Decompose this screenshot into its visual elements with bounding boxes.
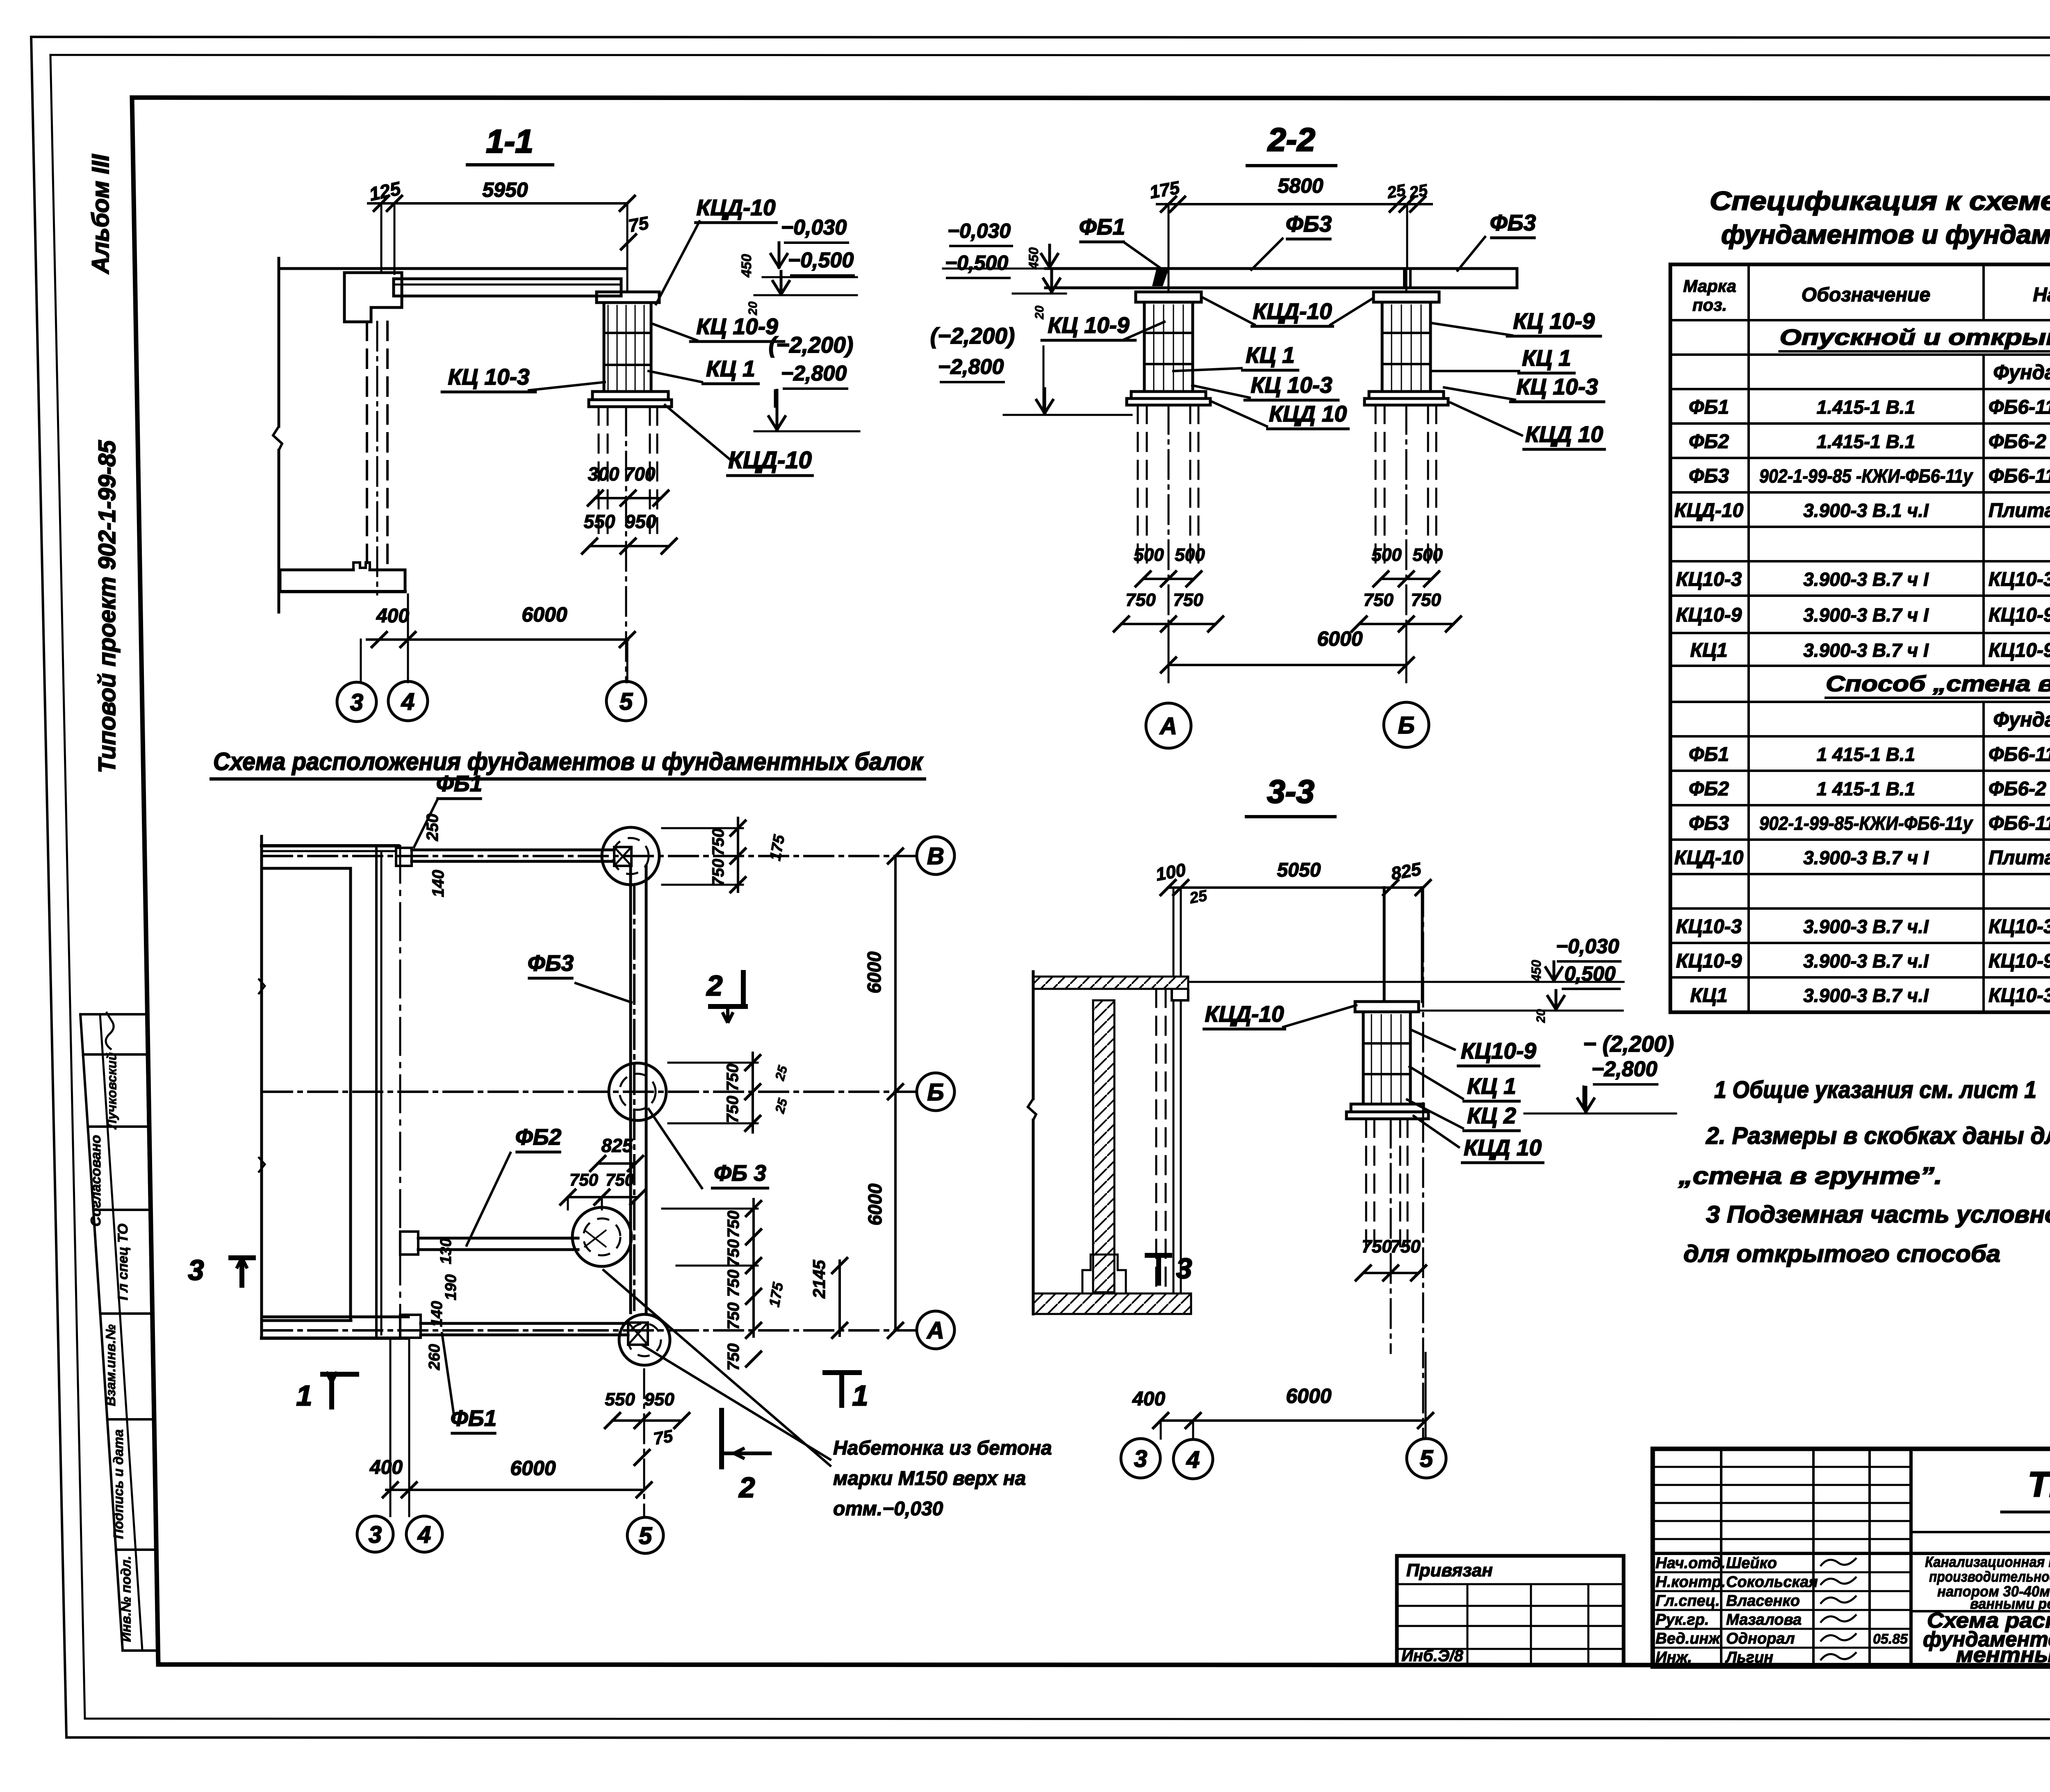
svg-text:1.415-1 В.1: 1.415-1 В.1: [1817, 431, 1915, 452]
svg-text:В: В: [927, 843, 944, 870]
svg-text:1.415-1 В.1: 1.415-1 В.1: [1817, 396, 1915, 418]
svg-text:КЦ 1: КЦ 1: [1246, 342, 1295, 368]
svg-text:500: 500: [1175, 545, 1205, 565]
svg-text:Плита днища КЦД10: Плита днища КЦД10: [1988, 500, 2050, 521]
svg-text:КЦД-10: КЦД-10: [1205, 1001, 1284, 1027]
svg-text:КЦ1: КЦ1: [1690, 640, 1727, 661]
svg-text:3.900-3 В.7 ч.I: 3.900-3 В.7 ч.I: [1803, 950, 1929, 972]
svg-text:750: 750: [1362, 1236, 1392, 1257]
svg-text:Фундаментные балки: Фундаментные балки: [1993, 361, 2050, 384]
svg-text:6000: 6000: [510, 1457, 556, 1480]
svg-text:Власенко: Власенко: [1726, 1592, 1800, 1610]
svg-text:5950: 5950: [482, 178, 528, 201]
svg-text:ФБ6-11: ФБ6-11: [1988, 744, 2050, 765]
svg-text:2145: 2145: [809, 1260, 829, 1299]
svg-text:ФБ3: ФБ3: [1689, 813, 1729, 834]
svg-text:А: А: [1159, 713, 1177, 740]
svg-text:1 415-1 В.1: 1 415-1 В.1: [1817, 744, 1915, 765]
svg-text:−0,030: −0,030: [1556, 935, 1619, 958]
svg-text:ФБ3: ФБ3: [1286, 211, 1332, 237]
svg-text:КЦ10-3: КЦ10-3: [1988, 569, 2050, 590]
svg-text:3: 3: [188, 1254, 204, 1286]
svg-text:Нач.отд.: Нач.отд.: [1656, 1555, 1725, 1572]
svg-text:поз.: поз.: [1692, 295, 1727, 314]
svg-text:750: 750: [709, 829, 727, 856]
svg-text:6000: 6000: [1317, 627, 1362, 650]
svg-text:Вед.инж: Вед.инж: [1656, 1630, 1721, 1647]
svg-text:Опускной и открытый способ: Опускной и открытый способ: [1780, 325, 2050, 350]
svg-text:450: 450: [739, 254, 754, 278]
svg-text:для открытого способа: для открытого способа: [1683, 1241, 2000, 1267]
svg-text:2. Размеры в скобках даны дл: 2. Размеры в скобках даны для способа: [1706, 1123, 2050, 1149]
svg-text:Н.контр.: Н.контр.: [1656, 1573, 1726, 1591]
svg-text:1 Общие указания см. лист 1: 1 Общие указания см. лист 1: [1714, 1077, 2036, 1103]
svg-text:ФБ1: ФБ1: [1689, 396, 1729, 418]
svg-text:750: 750: [709, 859, 727, 886]
svg-text:Наименование: Наименование: [2033, 284, 2050, 306]
svg-text:750: 750: [724, 1302, 743, 1330]
svg-text:КЦ10-9: КЦ10-9: [1988, 950, 2050, 972]
svg-text:ФБ6-2: ФБ6-2: [1988, 431, 2046, 453]
svg-text:КЦ10-3: КЦ10-3: [1988, 985, 2050, 1006]
svg-text:Фундаментные балки: Фундаментные балки: [1993, 708, 2050, 731]
svg-text:190: 190: [442, 1274, 460, 1300]
svg-text:КЦ10-9: КЦ10-9: [1988, 604, 2050, 626]
svg-text:Согласовано: Согласовано: [88, 1135, 104, 1227]
svg-text:„стена в грунте”.: „стена в грунте”.: [1678, 1163, 1942, 1189]
svg-text:КЦД-10: КЦД-10: [1674, 847, 1744, 869]
svg-text:2: 2: [738, 1471, 755, 1503]
svg-text:Марка: Марка: [1683, 276, 1736, 296]
svg-text:140: 140: [429, 870, 447, 897]
svg-text:5800: 5800: [1278, 174, 1323, 197]
svg-text:ФБ6-11: ФБ6-11: [1988, 396, 2050, 418]
svg-text:3-3: 3-3: [1267, 773, 1314, 810]
svg-text:140: 140: [428, 1301, 446, 1327]
svg-text:750: 750: [724, 1239, 743, 1267]
svg-text:500: 500: [1412, 545, 1443, 565]
svg-text:(−2,200): (−2,200): [930, 323, 1015, 348]
svg-text:500: 500: [1371, 545, 1402, 565]
svg-text:5: 5: [639, 1523, 652, 1549]
svg-text:Сокольская: Сокольская: [1726, 1573, 1818, 1591]
svg-text:3 Подземная часть условно п: 3 Подземная часть условно показана: [1706, 1201, 2050, 1228]
svg-text:Инб.Э/8: Инб.Э/8: [1401, 1647, 1464, 1665]
svg-text:Гл.спец.: Гл.спец.: [1656, 1592, 1720, 1610]
svg-text:−0,500: −0,500: [788, 248, 854, 272]
svg-text:КЦ10-9: КЦ10-9: [1988, 640, 2050, 661]
svg-text:КЦ10-9: КЦ10-9: [1676, 950, 1742, 972]
svg-text:КЦД-10: КЦД-10: [1253, 298, 1332, 324]
svg-text:950: 950: [644, 1389, 674, 1409]
svg-text:Б: Б: [927, 1079, 944, 1106]
svg-text:2-2: 2-2: [1267, 121, 1315, 158]
svg-text:КЦ 10-3: КЦ 10-3: [1250, 372, 1332, 398]
svg-text:КЦ10-3: КЦ10-3: [1988, 916, 2050, 938]
svg-text:3: 3: [350, 689, 363, 716]
svg-text:3.900-3 В.7 ч I: 3.900-3 В.7 ч I: [1803, 847, 1929, 868]
svg-text:05.85: 05.85: [1873, 1631, 1908, 1647]
svg-text:250: 250: [424, 814, 442, 842]
svg-text:75: 75: [627, 213, 650, 236]
svg-text:КЦ 10-9: КЦ 10-9: [1048, 312, 1130, 338]
svg-text:Схема расположения фундаментов: Схема расположения фундаментов и фундаме…: [213, 748, 923, 775]
svg-text:−2,800: −2,800: [938, 355, 1004, 379]
svg-text:750: 750: [1363, 590, 1394, 610]
svg-text:4: 4: [401, 688, 415, 715]
svg-text:950: 950: [625, 511, 656, 532]
svg-text:КЦ 10-3: КЦ 10-3: [1516, 374, 1598, 399]
svg-text:КЦД-10: КЦД-10: [728, 447, 812, 474]
svg-text:Канализационная насосная станц: Канализационная насосная станция: [1925, 1553, 2050, 1570]
svg-text:750: 750: [1411, 590, 1441, 610]
svg-text:ФБ6-2: ФБ6-2: [1988, 778, 2046, 800]
svg-text:Шейко: Шейко: [1726, 1555, 1777, 1572]
svg-text:(−2,200): (−2,200): [769, 332, 853, 357]
svg-text:750: 750: [724, 1343, 743, 1371]
svg-text:Б: Б: [1398, 712, 1414, 739]
svg-text:450: 450: [1026, 247, 1041, 270]
svg-text:Спецификация к схеме располож: Спецификация к схеме расположения: [1710, 186, 2050, 216]
svg-text:750: 750: [1173, 590, 1203, 610]
svg-text:750: 750: [606, 1170, 634, 1189]
svg-text:ФБ1: ФБ1: [1689, 744, 1729, 765]
svg-text:Плита днища КЦД 10: Плита днища КЦД 10: [1988, 847, 2050, 869]
svg-text:КЦ 10-3: КЦ 10-3: [448, 364, 529, 389]
svg-text:КЦД 10: КЦД 10: [1525, 421, 1603, 447]
svg-text:ФБ2: ФБ2: [1689, 431, 1729, 453]
svg-text:ФБ3: ФБ3: [1689, 465, 1729, 487]
svg-text:отм.−0,030: отм.−0,030: [833, 1498, 943, 1520]
svg-text:75: 75: [652, 1426, 674, 1448]
svg-text:марки М150 верх на: марки М150 верх на: [833, 1468, 1026, 1489]
svg-text:ФБ2: ФБ2: [515, 1124, 562, 1150]
svg-text:КЦ 1: КЦ 1: [1522, 345, 1571, 371]
svg-text:−0,500: −0,500: [945, 251, 1009, 274]
svg-text:Инв.№ подл.: Инв.№ подл.: [118, 1556, 134, 1642]
svg-text:902-1-99-85-КЖИ-ФБ6-11у: 902-1-99-85-КЖИ-ФБ6-11у: [1759, 813, 1973, 834]
svg-text:260: 260: [426, 1344, 443, 1370]
svg-text:130: 130: [437, 1238, 455, 1264]
svg-text:2: 2: [706, 970, 723, 1002]
svg-text:6000: 6000: [1286, 1384, 1331, 1407]
svg-text:3: 3: [369, 1521, 382, 1548]
svg-text:КЦ 2: КЦ 2: [1467, 1103, 1516, 1128]
svg-text:Льгин: Льгин: [1725, 1649, 1773, 1666]
svg-text:825: 825: [601, 1135, 633, 1156]
svg-text:750: 750: [724, 1064, 742, 1091]
svg-text:750: 750: [1125, 590, 1156, 610]
svg-text:ФБ3: ФБ3: [1490, 210, 1536, 235]
svg-text:4: 4: [1186, 1446, 1200, 1473]
svg-text:6000: 6000: [522, 603, 567, 626]
svg-text:КЦ 10-9: КЦ 10-9: [696, 314, 778, 339]
svg-text:400: 400: [369, 1457, 403, 1478]
svg-text:ФБ3: ФБ3: [528, 950, 574, 976]
svg-text:КЦ 1: КЦ 1: [1467, 1073, 1516, 1099]
svg-text:3.900-3 В.7 ч I: 3.900-3 В.7 ч I: [1803, 569, 1929, 590]
svg-text:фундаментов и фундаментных бал: фундаментов и фундаментных балок: [1721, 220, 2050, 249]
svg-text:750: 750: [569, 1170, 598, 1189]
svg-text:5050: 5050: [1277, 859, 1321, 881]
svg-text:3.900-3 В.7 ч I: 3.900-3 В.7 ч I: [1803, 604, 1929, 626]
svg-text:25: 25: [1188, 887, 1209, 907]
svg-text:производительностью 400-2000м³: производительностью 400-2000м³/ч: [1929, 1568, 2050, 1585]
svg-text:−0,030: −0,030: [948, 219, 1011, 242]
svg-text:А: А: [926, 1317, 944, 1344]
svg-text:1-1: 1-1: [486, 123, 533, 159]
svg-text:Привязан: Привязан: [1406, 1560, 1493, 1580]
svg-text:4: 4: [417, 1521, 431, 1548]
svg-text:Однорал: Однорал: [1726, 1630, 1795, 1647]
svg-text:5: 5: [620, 688, 633, 715]
svg-text:ФБ 3: ФБ 3: [714, 1160, 766, 1186]
svg-text:КЦД 10: КЦД 10: [1269, 401, 1347, 426]
svg-text:5: 5: [1420, 1446, 1433, 1472]
svg-text:КЦД 10: КЦД 10: [1464, 1135, 1542, 1160]
svg-text:−2,800: −2,800: [1592, 1057, 1658, 1081]
svg-text:550: 550: [584, 511, 615, 532]
svg-text:20: 20: [1534, 1009, 1548, 1023]
svg-text:3.900-3 В.7 ч.I: 3.900-3 В.7 ч.I: [1803, 985, 1929, 1006]
svg-text:КЦ10-3: КЦ10-3: [1676, 569, 1742, 590]
svg-text:КЦ10-3: КЦ10-3: [1676, 916, 1742, 938]
svg-text:КЦ10-9: КЦ10-9: [1461, 1038, 1536, 1063]
svg-text:Взам.инв.№: Взам.инв.№: [103, 1324, 118, 1406]
svg-text:400: 400: [1132, 1388, 1165, 1410]
svg-text:Гл спец ТО: Гл спец ТО: [115, 1224, 131, 1300]
svg-text:КЦ10-9: КЦ10-9: [1676, 604, 1742, 626]
svg-text:Альбом III: Альбом III: [87, 154, 114, 275]
svg-text:6000: 6000: [863, 951, 885, 993]
svg-text:700: 700: [624, 463, 656, 485]
svg-text:400: 400: [376, 605, 409, 627]
svg-text:0,500: 0,500: [1564, 962, 1615, 985]
svg-text:КЦ 1: КЦ 1: [706, 356, 755, 381]
svg-text:ФБ6-11у: ФБ6-11у: [1988, 813, 2050, 834]
svg-text:20: 20: [1033, 305, 1046, 320]
svg-text:6000: 6000: [864, 1183, 886, 1225]
svg-text:− (2,200): − (2,200): [1583, 1031, 1674, 1057]
svg-text:750: 750: [724, 1096, 742, 1123]
svg-text:1: 1: [852, 1380, 868, 1412]
svg-text:−2,800: −2,800: [781, 362, 847, 385]
svg-text:Рук.гр.: Рук.гр.: [1656, 1611, 1709, 1628]
svg-text:Инж.: Инж.: [1656, 1649, 1692, 1666]
svg-text:ФБ2: ФБ2: [1689, 778, 1729, 800]
svg-text:3.900-3 В.7 ч.I: 3.900-3 В.7 ч.I: [1803, 916, 1929, 937]
svg-text:Набетонка из бетона: Набетонка из бетона: [833, 1437, 1052, 1459]
svg-text:Способ „стена в грунте”: Способ „стена в грунте”: [1826, 672, 2050, 696]
svg-text:КЦ1: КЦ1: [1690, 985, 1727, 1006]
svg-text:1: 1: [296, 1380, 312, 1412]
svg-text:ментных балок: ментных балок: [1956, 1643, 2050, 1667]
svg-text:КЦ 10-9: КЦ 10-9: [1513, 308, 1595, 334]
svg-text:3: 3: [1176, 1252, 1192, 1284]
svg-text:Типовой проект 902-1-99-85: Типовой проект 902-1-99-85: [94, 440, 121, 773]
svg-text:300: 300: [588, 463, 620, 485]
svg-text:750: 750: [724, 1211, 743, 1238]
svg-text:ТП 902-1-99-85: ТП 902-1-99-85: [2028, 1465, 2050, 1504]
svg-text:Обозначение: Обозначение: [1802, 284, 1930, 306]
svg-text:Мазалова: Мазалова: [1726, 1611, 1802, 1628]
svg-text:500: 500: [1134, 545, 1164, 565]
svg-text:Лучковский: Лучковский: [104, 1052, 119, 1129]
svg-text:3: 3: [1134, 1446, 1147, 1472]
svg-text:902-1-99-85 -КЖИ-ФБ6-11у: 902-1-99-85 -КЖИ-ФБ6-11у: [1759, 465, 1973, 487]
svg-text:1 415-1 В.1: 1 415-1 В.1: [1817, 778, 1915, 799]
svg-text:750: 750: [1390, 1236, 1421, 1257]
svg-text:750: 750: [724, 1270, 743, 1297]
svg-text:450: 450: [1529, 960, 1544, 982]
svg-text:−0,030: −0,030: [781, 216, 847, 239]
svg-text:КЦД-10: КЦД-10: [1674, 500, 1744, 521]
svg-text:550: 550: [605, 1389, 635, 1409]
svg-text:КЦД-10: КЦД-10: [696, 195, 776, 220]
svg-text:ФБ1: ФБ1: [1079, 214, 1125, 239]
svg-text:Подпись и дата: Подпись и дата: [111, 1429, 126, 1539]
svg-text:3.900-3 В.7 ч I: 3.900-3 В.7 ч I: [1803, 640, 1929, 661]
svg-text:ФБ6-11у: ФБ6-11у: [1988, 465, 2050, 487]
svg-text:ФБ1: ФБ1: [436, 771, 482, 796]
svg-text:ФБ1: ФБ1: [451, 1405, 497, 1431]
svg-text:3.900-3 В.1 ч.I: 3.900-3 В.1 ч.I: [1803, 500, 1929, 521]
